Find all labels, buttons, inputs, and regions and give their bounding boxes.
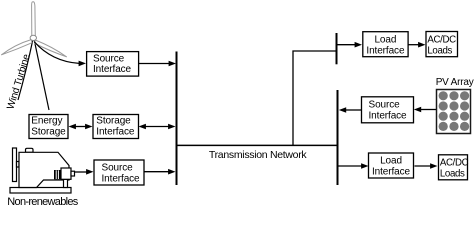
svg-text:Energy: Energy (31, 116, 62, 127)
svg-text:Interface: Interface (369, 111, 408, 122)
bus: right vertical (337, 90, 339, 185)
label: Wind Turbine (5, 52, 32, 110)
svg-text:Interface: Interface (93, 64, 132, 75)
wire: generator to non-renewables Source Interface (75, 169, 94, 175)
svg-text:Source: Source (93, 54, 125, 65)
generator icon (non-renewables) (10, 148, 75, 193)
svg-text:Source: Source (369, 100, 401, 111)
block: Source Interface (non-renewables) (94, 160, 144, 185)
block: Load Interface (top) (363, 32, 408, 57)
label: Non-renewables (7, 196, 78, 208)
label: PV Array (436, 77, 474, 88)
wire: bottom Load Interface to AC/DC Loads (415, 163, 438, 169)
svg-text:Load: Load (374, 35, 396, 46)
wire: wind Source Interface to left bus (139, 61, 177, 67)
block: Storage Interface (93, 115, 139, 139)
wire: PV Source Interface to right bus (339, 107, 361, 113)
wind turbine icon (2, 2, 67, 110)
wire: non-renewables Source Interface to left bus (145, 169, 176, 175)
block: Source Interface (PV) (362, 97, 414, 123)
svg-text:Load: Load (380, 156, 402, 167)
wire: riser from transmission line to top-right tick (293, 51, 336, 145)
svg-text:Loads: Loads (440, 169, 465, 180)
wire: Energy Storage to Storage Interface (double arrow) (69, 124, 93, 130)
wire: right bus to bottom Load Interface (339, 163, 369, 169)
wire: turbine to wind Source Interface (curved arrow) (35, 42, 87, 66)
transmission network line (176, 144, 339, 146)
svg-text:Interface: Interface (366, 45, 405, 56)
PV array icon (437, 90, 471, 134)
svg-text:Transmission Network: Transmission Network (209, 149, 308, 161)
wire: PV array to PV Source Interface (414, 107, 436, 113)
svg-text:AC/DC: AC/DC (427, 34, 456, 45)
bus: top-right tick (336, 33, 338, 64)
block: Source Interface (wind) (87, 52, 139, 77)
svg-text:Loads: Loads (427, 45, 452, 56)
wire: Storage Interface to left bus (double arrow) (139, 124, 176, 130)
wire: top Load Interface to AC/DC Loads (408, 42, 426, 48)
svg-text:Storage: Storage (31, 127, 66, 138)
svg-text:Interface: Interface (96, 127, 135, 138)
svg-text:Storage: Storage (96, 116, 131, 127)
svg-text:Source: Source (102, 163, 134, 174)
svg-text:PV Array: PV Array (436, 77, 474, 88)
label: Transmission Network (209, 149, 308, 161)
block: AC/DC Loads (bottom) (439, 155, 469, 180)
svg-text:Interface: Interface (372, 166, 411, 177)
svg-text:AC/DC: AC/DC (440, 158, 469, 169)
block: AC/DC Loads (top) (426, 32, 458, 57)
block: Load Interface (bottom) (369, 153, 414, 178)
bus: left vertical (176, 52, 178, 186)
wire: tick to top Load Interface (338, 42, 363, 48)
block: Energy Storage (29, 115, 68, 139)
svg-text:Non-renewables: Non-renewables (7, 196, 78, 206)
svg-text:Interface: Interface (102, 174, 141, 185)
